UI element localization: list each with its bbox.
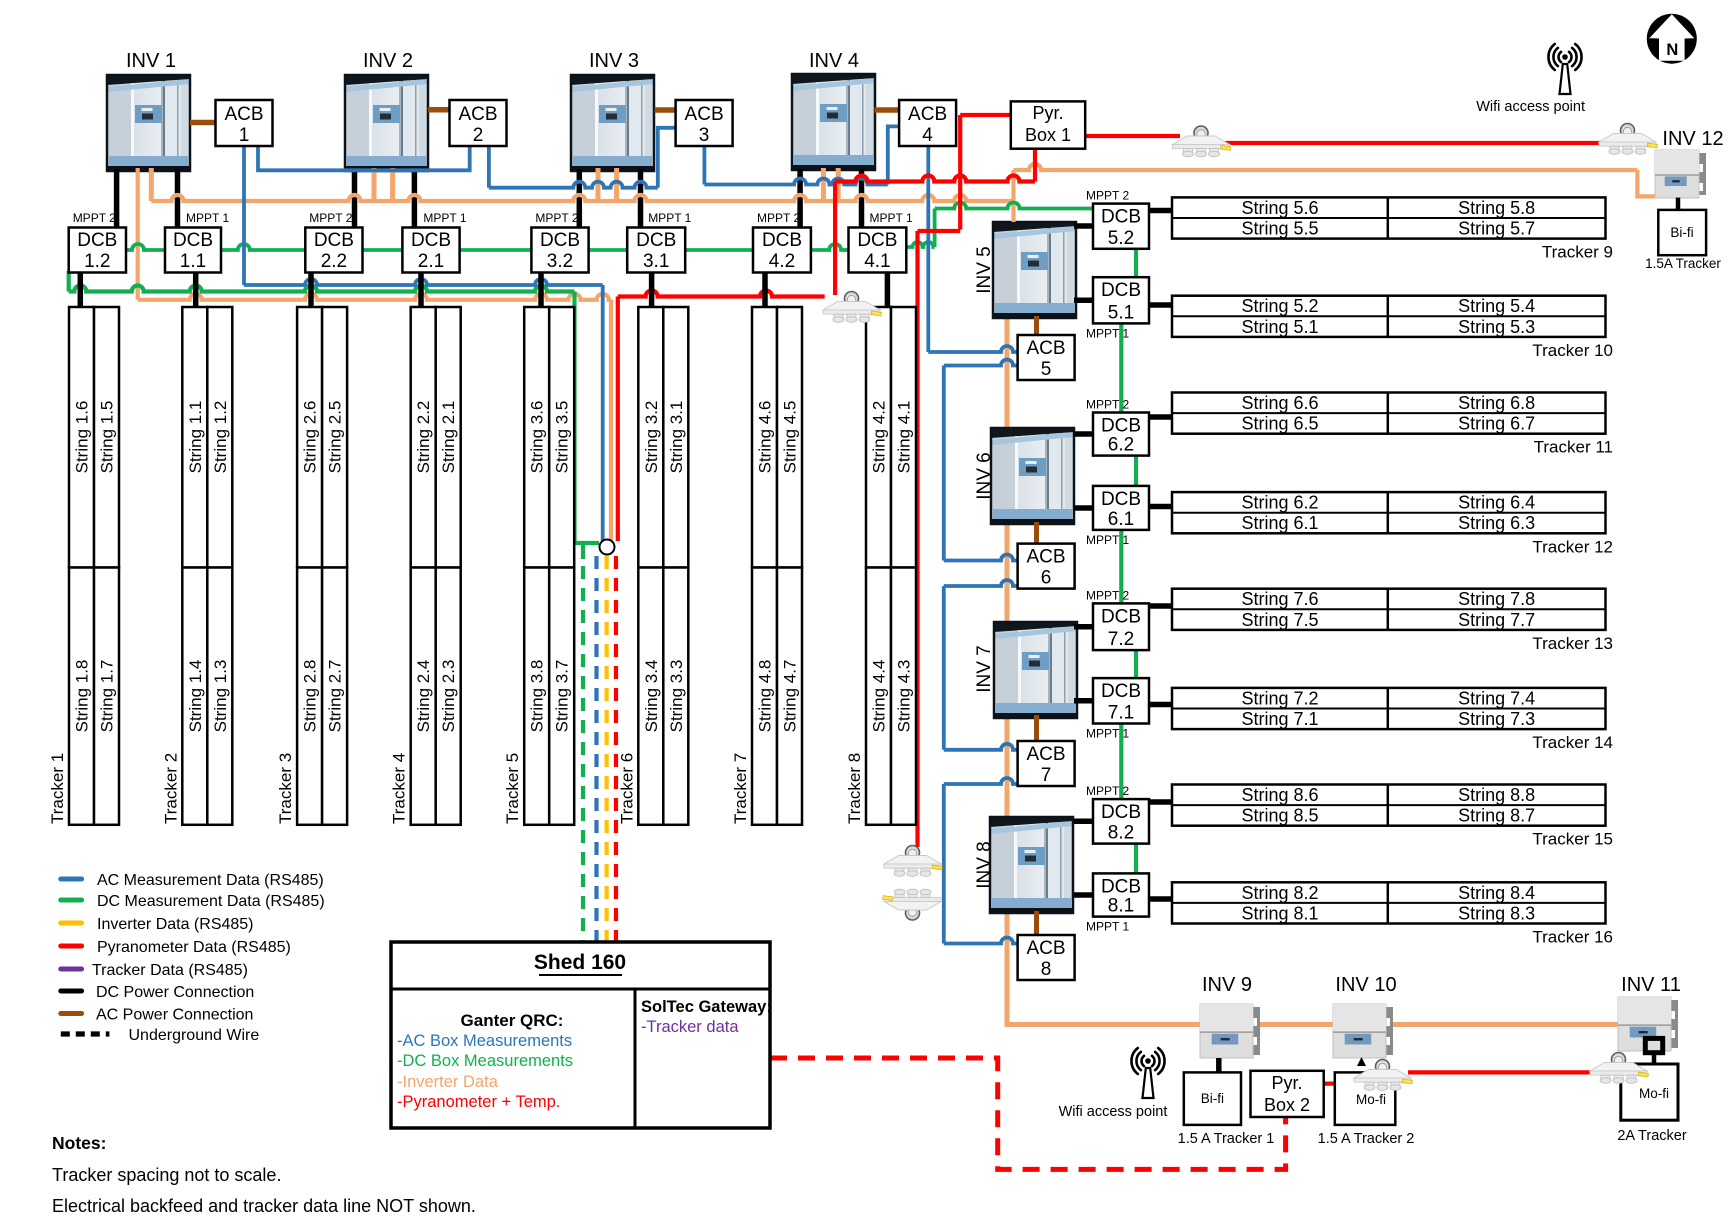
svg-text:MPPT 1: MPPT 1	[186, 211, 229, 225]
svg-text:DCB: DCB	[636, 230, 676, 251]
svg-text:6.2: 6.2	[1108, 435, 1134, 456]
svg-text:String 7.1: String 7.1	[1241, 709, 1318, 729]
svg-text:8.2: 8.2	[1108, 823, 1134, 844]
svg-text:String 1.7: String 1.7	[98, 660, 117, 733]
svg-text:String 4.5: String 4.5	[781, 401, 800, 474]
svg-text:String 1.6: String 1.6	[73, 401, 92, 474]
svg-text:Wifi access point: Wifi access point	[1476, 99, 1585, 115]
svg-text:7.2: 7.2	[1108, 629, 1134, 650]
svg-text:String 6.1: String 6.1	[1241, 513, 1318, 533]
svg-text:AC Power Connection: AC Power Connection	[96, 1007, 253, 1024]
svg-text:String 4.3: String 4.3	[895, 660, 914, 733]
svg-text:String 7.5: String 7.5	[1241, 610, 1318, 630]
svg-text:1.5A Tracker: 1.5A Tracker	[1645, 256, 1721, 271]
svg-text:ACB: ACB	[685, 104, 724, 125]
svg-text:DCB: DCB	[1101, 416, 1141, 437]
svg-text:String 6.8: String 6.8	[1458, 393, 1535, 413]
svg-text:Tracker 7: Tracker 7	[731, 753, 750, 824]
svg-text:4.1: 4.1	[864, 251, 890, 272]
svg-text:DCB: DCB	[77, 230, 117, 251]
svg-text:ACB: ACB	[908, 104, 947, 125]
svg-text:String 4.7: String 4.7	[781, 660, 800, 733]
svg-text:String 3.8: String 3.8	[528, 660, 547, 733]
svg-text:String 7.6: String 7.6	[1241, 589, 1318, 609]
svg-text:String 4.8: String 4.8	[756, 660, 775, 733]
svg-text:String 2.5: String 2.5	[326, 401, 345, 474]
svg-text:ACB: ACB	[1026, 938, 1065, 959]
svg-text:N: N	[1666, 41, 1678, 59]
svg-text:DCB: DCB	[540, 230, 580, 251]
svg-text:DCB: DCB	[173, 230, 213, 251]
svg-text:String 1.2: String 1.2	[211, 401, 230, 474]
svg-text:ACB: ACB	[458, 104, 497, 125]
svg-text:INV 8: INV 8	[974, 841, 995, 889]
svg-text:MPPT 2: MPPT 2	[1086, 588, 1129, 602]
svg-text:6: 6	[1041, 568, 1052, 589]
svg-text:7.1: 7.1	[1108, 703, 1134, 724]
svg-text:String 8.4: String 8.4	[1458, 883, 1535, 903]
svg-text:Tracker 1: Tracker 1	[48, 753, 67, 824]
svg-text:String 2.1: String 2.1	[439, 401, 458, 474]
svg-text:-Pyranometer + Temp.: -Pyranometer + Temp.	[397, 1093, 560, 1111]
svg-text:SolTec Gateway:: SolTec Gateway:	[641, 998, 772, 1016]
svg-text:MPPT 1: MPPT 1	[1086, 727, 1129, 741]
svg-text:String 6.5: String 6.5	[1241, 414, 1318, 434]
svg-text:4: 4	[922, 125, 933, 146]
svg-text:ACB: ACB	[1026, 744, 1065, 765]
svg-text:3: 3	[699, 125, 710, 146]
svg-text:String 8.3: String 8.3	[1458, 903, 1535, 923]
svg-text:MPPT 2: MPPT 2	[1086, 189, 1129, 203]
svg-text:-Tracker data: -Tracker data	[641, 1018, 739, 1036]
svg-text:1.2: 1.2	[84, 251, 110, 272]
svg-text:Tracker spacing not to scale.: Tracker spacing not to scale.	[52, 1165, 281, 1185]
svg-text:String 6.2: String 6.2	[1241, 493, 1318, 513]
svg-text:Tracker 13: Tracker 13	[1532, 634, 1613, 653]
svg-text:Tracker 3: Tracker 3	[276, 753, 295, 824]
svg-text:8: 8	[1041, 959, 1052, 980]
svg-text:3.2: 3.2	[547, 251, 573, 272]
svg-text:String 6.6: String 6.6	[1241, 393, 1318, 413]
svg-text:String 4.6: String 4.6	[756, 401, 775, 474]
svg-text:String 1.5: String 1.5	[98, 401, 117, 474]
svg-text:String 6.7: String 6.7	[1458, 414, 1535, 434]
svg-text:MPPT 2: MPPT 2	[535, 211, 578, 225]
svg-text:MPPT 1: MPPT 1	[423, 211, 466, 225]
svg-text:String 7.8: String 7.8	[1458, 589, 1535, 609]
svg-text:2.1: 2.1	[418, 251, 444, 272]
svg-text:2.2: 2.2	[321, 251, 347, 272]
svg-text:String 5.7: String 5.7	[1458, 219, 1535, 239]
svg-text:String 2.2: String 2.2	[414, 401, 433, 474]
svg-text:Pyranometer Data (RS485): Pyranometer Data (RS485)	[97, 939, 291, 956]
svg-text:DCB: DCB	[1101, 876, 1141, 897]
svg-text:String 5.1: String 5.1	[1241, 317, 1318, 337]
svg-text:DCB: DCB	[762, 230, 802, 251]
svg-text:INV 2: INV 2	[363, 50, 413, 72]
svg-text:-Inverter Data: -Inverter Data	[397, 1073, 499, 1091]
svg-text:1.5 A Tracker 2: 1.5 A Tracker 2	[1318, 1131, 1415, 1147]
svg-text:5: 5	[1041, 359, 1052, 380]
svg-text:String 6.4: String 6.4	[1458, 493, 1535, 513]
svg-text:Shed 160: Shed 160	[534, 951, 626, 974]
svg-text:String 5.2: String 5.2	[1241, 296, 1318, 316]
svg-text:Tracker 16: Tracker 16	[1532, 928, 1613, 947]
svg-text:INV 10: INV 10	[1335, 974, 1396, 996]
svg-text:String 5.4: String 5.4	[1458, 296, 1535, 316]
svg-text:AC Measurement Data (RS485): AC Measurement Data (RS485)	[97, 872, 324, 889]
svg-text:4.2: 4.2	[769, 251, 795, 272]
svg-text:INV 11: INV 11	[1621, 974, 1681, 996]
svg-text:Notes:: Notes:	[52, 1133, 106, 1153]
svg-text:String 4.1: String 4.1	[895, 401, 914, 474]
svg-text:DCB: DCB	[857, 230, 897, 251]
svg-text:String 4.2: String 4.2	[870, 401, 889, 474]
svg-text:2A Tracker: 2A Tracker	[1617, 1128, 1686, 1144]
svg-text:Tracker 8: Tracker 8	[845, 753, 864, 824]
svg-text:String 3.5: String 3.5	[553, 401, 572, 474]
svg-text:Mo-fi: Mo-fi	[1356, 1092, 1386, 1107]
svg-text:Tracker 4: Tracker 4	[390, 753, 409, 824]
svg-text:INV 7: INV 7	[974, 645, 995, 693]
svg-text:DCB: DCB	[1101, 280, 1141, 301]
svg-text:String 4.4: String 4.4	[870, 660, 889, 733]
svg-text:INV 1: INV 1	[126, 50, 176, 72]
svg-text:DCB: DCB	[1101, 489, 1141, 510]
svg-text:String 6.3: String 6.3	[1458, 513, 1535, 533]
svg-text:String 2.7: String 2.7	[326, 660, 345, 733]
svg-text:String 8.1: String 8.1	[1241, 903, 1318, 923]
svg-text:2: 2	[473, 125, 484, 146]
svg-text:INV 6: INV 6	[974, 452, 995, 500]
svg-text:String 1.1: String 1.1	[186, 401, 205, 474]
svg-text:MPPT 2: MPPT 2	[1086, 398, 1129, 412]
svg-text:MPPT 1: MPPT 1	[1086, 326, 1129, 340]
svg-text:Box 2: Box 2	[1264, 1095, 1310, 1115]
svg-text:String 1.3: String 1.3	[211, 660, 230, 733]
svg-text:5.1: 5.1	[1108, 302, 1134, 323]
svg-text:MPPT 2: MPPT 2	[1086, 784, 1129, 798]
svg-text:String 5.3: String 5.3	[1458, 317, 1535, 337]
svg-text:Electrical backfeed and tracke: Electrical backfeed and tracker data lin…	[52, 1196, 476, 1216]
svg-text:Tracker 2: Tracker 2	[161, 753, 180, 824]
svg-text:Ganter QRC:: Ganter QRC:	[461, 1011, 564, 1030]
svg-text:MPPT 2: MPPT 2	[309, 211, 352, 225]
svg-text:DCB: DCB	[1101, 681, 1141, 702]
svg-text:String 8.5: String 8.5	[1241, 806, 1318, 826]
svg-text:Tracker Data (RS485): Tracker Data (RS485)	[92, 962, 248, 979]
svg-text:ACB: ACB	[1026, 338, 1065, 359]
svg-text:Tracker 12: Tracker 12	[1532, 537, 1613, 556]
svg-text:MPPT 1: MPPT 1	[1086, 533, 1129, 547]
svg-text:String 3.4: String 3.4	[642, 660, 661, 733]
svg-text:String 7.3: String 7.3	[1458, 709, 1535, 729]
svg-text:Tracker 5: Tracker 5	[503, 753, 522, 824]
svg-text:Bi-fi: Bi-fi	[1670, 225, 1693, 240]
svg-text:Tracker 11: Tracker 11	[1534, 438, 1613, 457]
svg-text:String 1.4: String 1.4	[186, 660, 205, 733]
svg-text:String 2.4: String 2.4	[414, 660, 433, 733]
svg-text:Tracker 15: Tracker 15	[1532, 830, 1613, 849]
svg-text:6.1: 6.1	[1108, 509, 1134, 530]
svg-text:ACB: ACB	[1026, 547, 1065, 568]
svg-text:Inverter Data (RS485): Inverter Data (RS485)	[97, 916, 254, 933]
svg-text:Tracker 9: Tracker 9	[1542, 243, 1613, 262]
svg-text:String 7.7: String 7.7	[1458, 610, 1535, 630]
svg-text:3.1: 3.1	[643, 251, 669, 272]
svg-text:Pyr.: Pyr.	[1032, 103, 1063, 123]
svg-text:String 2.6: String 2.6	[301, 401, 320, 474]
svg-text:Wifi access point: Wifi access point	[1059, 1104, 1168, 1120]
svg-text:INV 5: INV 5	[974, 246, 995, 294]
svg-text:String 3.6: String 3.6	[528, 401, 547, 474]
svg-text:String 2.3: String 2.3	[439, 660, 458, 733]
svg-text:String 5.6: String 5.6	[1241, 198, 1318, 218]
svg-text:String 2.8: String 2.8	[301, 660, 320, 733]
svg-text:DCB: DCB	[314, 230, 354, 251]
svg-text:Tracker 14: Tracker 14	[1532, 733, 1613, 752]
svg-text:INV 3: INV 3	[589, 50, 639, 72]
svg-text:DC Power Connection: DC Power Connection	[96, 984, 254, 1001]
svg-text:String 8.8: String 8.8	[1458, 785, 1535, 805]
svg-text:5.2: 5.2	[1108, 228, 1134, 249]
svg-text:8.1: 8.1	[1108, 896, 1134, 917]
svg-text:String 8.6: String 8.6	[1241, 785, 1318, 805]
svg-text:1.5 A Tracker 1: 1.5 A Tracker 1	[1178, 1131, 1275, 1147]
svg-text:INV 4: INV 4	[809, 50, 859, 72]
svg-text:INV 12: INV 12	[1662, 128, 1723, 150]
svg-text:String 3.3: String 3.3	[667, 660, 686, 733]
svg-text:String 5.5: String 5.5	[1241, 219, 1318, 239]
svg-text:String 7.4: String 7.4	[1458, 688, 1535, 708]
svg-text:Mo-fi: Mo-fi	[1639, 1086, 1669, 1101]
svg-text:1: 1	[239, 125, 250, 146]
svg-text:String 8.7: String 8.7	[1458, 806, 1535, 826]
svg-text:MPPT 2: MPPT 2	[73, 211, 116, 225]
svg-text:-AC Box Measurements: -AC Box Measurements	[397, 1032, 572, 1050]
svg-text:DCB: DCB	[1101, 207, 1141, 228]
svg-text:Underground Wire: Underground Wire	[129, 1027, 260, 1044]
svg-text:DCB: DCB	[1101, 606, 1141, 627]
svg-text:MPPT 1: MPPT 1	[870, 211, 913, 225]
svg-text:String 3.2: String 3.2	[642, 401, 661, 474]
svg-text:DCB: DCB	[411, 230, 451, 251]
svg-text:1.1: 1.1	[180, 251, 206, 272]
svg-text:String 3.1: String 3.1	[667, 401, 686, 474]
svg-text:MPPT 1: MPPT 1	[648, 211, 691, 225]
svg-text:-DC Box Measurements: -DC Box Measurements	[397, 1052, 573, 1070]
svg-text:Bi-fi: Bi-fi	[1201, 1091, 1224, 1106]
svg-text:Tracker 6: Tracker 6	[617, 753, 636, 824]
svg-text:ACB: ACB	[224, 104, 263, 125]
svg-text:INV 9: INV 9	[1202, 974, 1252, 996]
svg-text:Tracker 10: Tracker 10	[1532, 341, 1613, 360]
svg-text:String 3.7: String 3.7	[553, 660, 572, 733]
svg-text:String 7.2: String 7.2	[1241, 688, 1318, 708]
svg-text:7: 7	[1041, 765, 1052, 786]
svg-text:DCB: DCB	[1101, 802, 1141, 823]
svg-text:String 1.8: String 1.8	[73, 660, 92, 733]
svg-text:String 5.8: String 5.8	[1458, 198, 1535, 218]
svg-text:Box 1: Box 1	[1025, 125, 1071, 145]
svg-text:MPPT 1: MPPT 1	[1086, 920, 1129, 934]
svg-text:DC Measurement Data (RS485): DC Measurement Data (RS485)	[97, 893, 325, 910]
svg-text:MPPT 2: MPPT 2	[757, 211, 800, 225]
svg-text:String 8.2: String 8.2	[1241, 883, 1318, 903]
svg-text:Pyr.: Pyr.	[1271, 1073, 1302, 1093]
